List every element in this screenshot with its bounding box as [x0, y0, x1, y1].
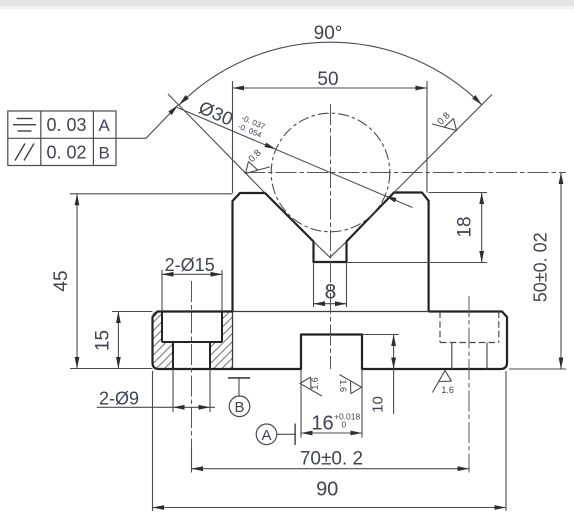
part vertical centerline: [330, 104, 332, 369]
datum B: [228, 377, 250, 379]
svg-text:1.6: 1.6: [310, 377, 320, 390]
svg-text:8: 8: [325, 281, 337, 304]
svg-text:1.6: 1.6: [338, 380, 348, 393]
D30 diameter dimension line: [177, 107, 413, 207]
svg-text:90: 90: [316, 479, 338, 501]
dim 16 +0.018/0: [300, 369, 302, 438]
left counterbore hole (sectioned): [162, 312, 222, 370]
main body outline: [233, 193, 429, 312]
svg-text:18: 18: [455, 216, 476, 237]
svg-text:2-Ø9: 2-Ø9: [99, 389, 139, 409]
svg-text:+0.018: +0.018: [334, 412, 361, 422]
dim 15 left: [112, 311, 153, 313]
svg-text:10: 10: [370, 396, 387, 413]
symmetry symbol: [13, 119, 36, 132]
svg-text:0: 0: [342, 420, 347, 430]
svg-text:50: 50: [317, 69, 338, 90]
svg-text:15: 15: [92, 330, 113, 351]
feature control frame: [8, 111, 116, 166]
dim 2-D15: [161, 270, 163, 312]
surface finish 0.8 on right slope: [432, 110, 461, 139]
left hole centerline: [191, 281, 193, 473]
surface finish 1.6 slot right wall: [338, 375, 361, 394]
svg-text:A: A: [261, 427, 271, 444]
section boundary line: [232, 312, 234, 370]
surface finish 1.6 base bottom: [432, 371, 453, 396]
dim 8: [313, 262, 315, 307]
right hole centerline: [468, 296, 470, 473]
dim 70 +-0.2: [191, 448, 193, 473]
V slope extension lines: [168, 94, 265, 193]
dim 90: [152, 371, 154, 511]
FCF leader: [116, 105, 178, 138]
surface finish 1.6 slot left wall: [300, 377, 322, 396]
svg-text:2-Ø15: 2-Ø15: [165, 255, 215, 275]
datum A: [256, 424, 277, 445]
dim 50 +-0.02 right: [509, 368, 566, 370]
svg-text:50±0. 02: 50±0. 02: [531, 232, 551, 302]
dim 45 left: [70, 193, 233, 195]
svg-text:B: B: [99, 144, 110, 163]
svg-text:B: B: [234, 399, 244, 416]
base top visible line across body: [233, 311, 429, 313]
90 degree arc dimension: [179, 42, 482, 105]
hatching of broken-out section: [150, 309, 235, 371]
dim 2-D9: [172, 369, 174, 412]
svg-text:0. 02: 0. 02: [46, 143, 86, 163]
dim 50 top: [232, 81, 234, 193]
V apex thin lines inside relief slot: [314, 242, 347, 258]
circle horizontal centerline: [244, 172, 566, 174]
right counterbore hole (hidden lines): [440, 312, 499, 370]
svg-text:A: A: [99, 116, 111, 135]
parallelism symbol: [15, 144, 34, 161]
dim 10: [362, 334, 399, 336]
top gray band: [0, 0, 574, 6]
surface finish 0.8 on left slope: [241, 148, 270, 183]
centerlines: [192, 104, 567, 473]
svg-text:1.6: 1.6: [441, 385, 454, 395]
dim 18: [429, 192, 487, 194]
base plate outline: [153, 312, 508, 370]
gauge circle D30: [271, 113, 390, 232]
svg-text:90°: 90°: [314, 23, 343, 44]
svg-text:16: 16: [311, 413, 333, 435]
svg-text:45: 45: [51, 270, 72, 291]
svg-text:0. 03: 0. 03: [46, 115, 86, 135]
svg-text:70±0. 2: 70±0. 2: [300, 449, 363, 470]
